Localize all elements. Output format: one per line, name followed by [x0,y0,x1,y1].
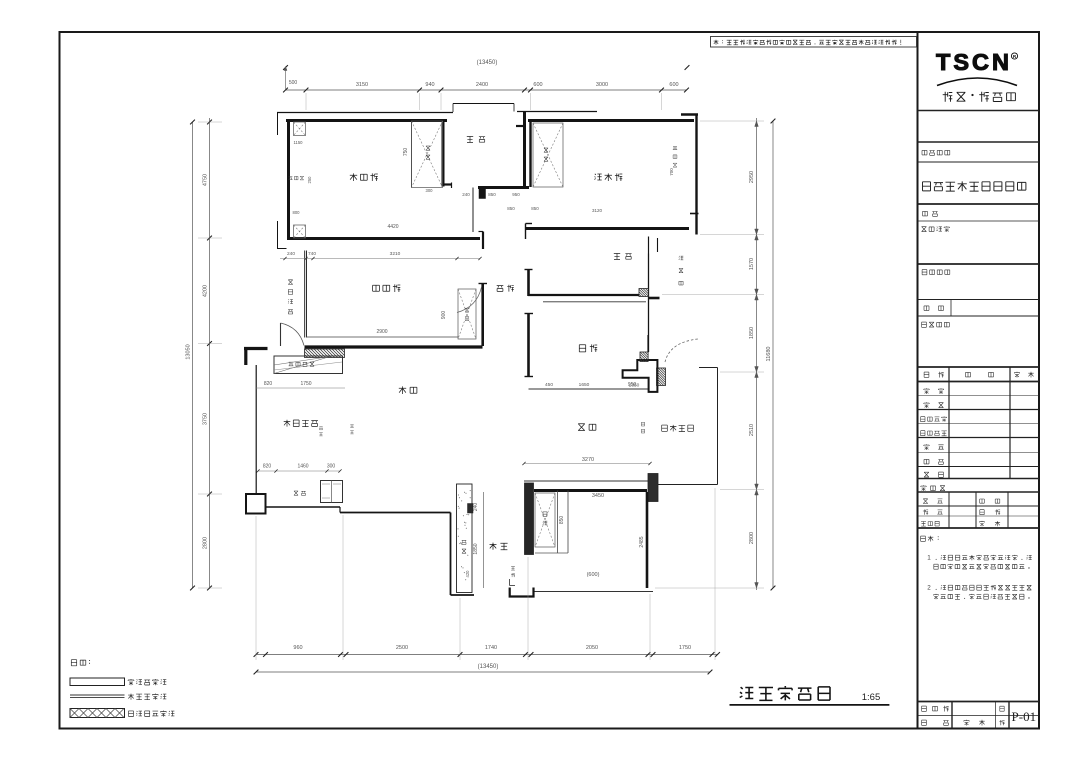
svg-text:1570: 1570 [749,258,755,270]
svg-text:1650: 1650 [579,382,590,388]
svg-text:11680: 11680 [766,347,772,362]
svg-text:4200: 4200 [203,285,209,297]
svg-text:(13450): (13450) [477,60,498,66]
svg-text:1750: 1750 [679,645,691,651]
svg-text:300: 300 [327,464,336,470]
svg-text:3000: 3000 [596,82,608,88]
svg-text:1750: 1750 [300,381,311,387]
svg-text:(600): (600) [587,572,600,578]
svg-text:750: 750 [403,148,409,157]
svg-text:1740: 1740 [485,645,497,651]
svg-text:2: 2 [927,585,931,592]
svg-text:2800: 2800 [203,537,209,549]
svg-text:3210: 3210 [390,251,401,257]
svg-text:850: 850 [488,192,496,197]
svg-text:1850: 1850 [473,543,479,554]
svg-text:2400: 2400 [476,82,488,88]
svg-text:240: 240 [287,251,295,257]
svg-text:3750: 3750 [203,413,209,425]
svg-text:950: 950 [512,192,520,197]
svg-text:850: 850 [531,206,539,211]
svg-text:850: 850 [507,206,515,211]
svg-text:2485: 2485 [639,536,645,547]
svg-text:P-01: P-01 [1012,709,1037,724]
svg-text:3270: 3270 [582,457,594,463]
svg-text:420: 420 [465,570,470,578]
svg-text:800: 800 [293,210,301,215]
svg-text:2800: 2800 [749,532,755,544]
svg-text:TSCN: TSCN [936,49,1012,75]
svg-text:3450: 3450 [592,493,604,499]
svg-text:240: 240 [473,503,479,512]
svg-text:1850: 1850 [749,327,755,339]
svg-text:600: 600 [669,82,678,88]
svg-text:500: 500 [289,80,298,86]
svg-text:850: 850 [559,516,565,525]
svg-text:1350: 1350 [629,383,640,389]
svg-text:13050: 13050 [186,344,192,359]
svg-text:1: 1 [927,555,931,562]
svg-text:740: 740 [308,251,316,257]
svg-text:960: 960 [293,645,302,651]
svg-text:2510: 2510 [749,424,755,436]
svg-text:450: 450 [545,382,553,388]
svg-text:820: 820 [263,464,272,470]
svg-text:3120: 3120 [592,208,603,213]
svg-text:3150: 3150 [356,82,368,88]
svg-text:2900: 2900 [376,329,387,335]
svg-text:900: 900 [441,311,447,320]
svg-text:2500: 2500 [396,645,408,651]
svg-text:4750: 4750 [203,174,209,186]
svg-text:1150: 1150 [293,140,303,145]
svg-text:820: 820 [264,381,273,387]
svg-text:2950: 2950 [749,171,755,183]
svg-text:2050: 2050 [586,645,598,651]
svg-text:1460: 1460 [297,464,308,470]
svg-text:240: 240 [462,192,470,197]
svg-text:(13450): (13450) [478,664,499,670]
svg-text:600: 600 [533,82,542,88]
svg-text:940: 940 [425,82,434,88]
svg-text:250: 250 [307,176,312,184]
svg-text:300: 300 [426,188,434,193]
svg-text:700: 700 [669,168,674,176]
svg-text:4420: 4420 [387,224,398,230]
svg-text:1:65: 1:65 [862,692,881,703]
